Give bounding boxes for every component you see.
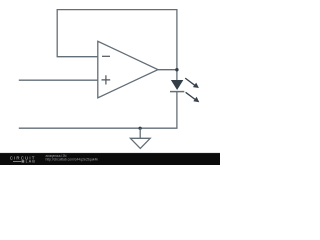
watermark bar (0, 153, 220, 165)
wire node A down to LED anode (176, 70, 178, 81)
wire op-amp output to node A (158, 69, 177, 71)
node B junction dot on bottom wire (138, 127, 141, 130)
node A junction dot at op-amp output (175, 68, 178, 71)
ground GND symbol (130, 138, 150, 148)
svg-text:LAB: LAB (26, 160, 36, 164)
op-amp U1 (98, 41, 158, 98)
LED D1 cathode bar (170, 91, 184, 93)
wire feedback loop from output node up over to inverting input (57, 10, 177, 70)
CircuitLab logo second row LAB (13, 160, 35, 164)
wire non-inverting input (19, 79, 98, 81)
op-amp inverting input label - (102, 55, 110, 57)
LED arrow 1 (185, 78, 199, 88)
wire bottom return (19, 92, 177, 129)
LED arrow 2 (186, 92, 200, 102)
LED D1 body (171, 80, 183, 90)
op-amp non-inverting input label + (102, 75, 111, 84)
ground GND stub (139, 128, 141, 138)
svg-text:http://circuitlab.com/c44q2ec5: http://circuitlab.com/c44q2ec5qak4k (46, 158, 99, 162)
